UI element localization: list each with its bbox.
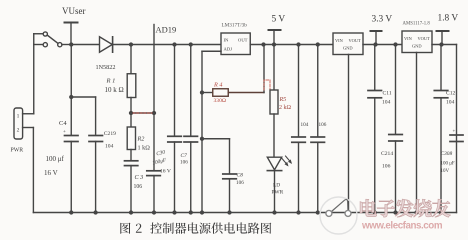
svg-text:C 3: C 3 (135, 174, 144, 181)
svg-text:2 kΩ: 2 kΩ (279, 105, 292, 111)
wire U3 GND down to rail (416, 53, 418, 213)
junction C30 top (172, 42, 176, 46)
junction node A (69, 42, 73, 46)
svg-text:VOUT: VOUT (349, 38, 362, 43)
svg-text:C12: C12 (446, 91, 456, 97)
svg-text:+: + (63, 130, 66, 135)
wire branch to C8 (202, 139, 230, 174)
wire connector pin 2 down to ground rail (32, 128, 34, 213)
svg-text:VOUT: VOUT (418, 36, 431, 41)
capacitor C30 (x=174.5) (168, 45, 182, 213)
regulator U2 3.3V box (333, 33, 363, 55)
wire VUser rail down to C4 (70, 45, 72, 135)
switch S1 bottom throw wire (34, 44, 43, 46)
wire switch to node A (62, 44, 71, 46)
svg-text:10 k Ω: 10 k Ω (105, 86, 124, 94)
red annotation hook R4 to R5 (264, 80, 270, 90)
LED arrows (282, 156, 292, 167)
wire U2 GND down to logo/rail (348, 55, 350, 211)
svg-text:LM317T/3b: LM317T/3b (222, 23, 248, 29)
wire U2 VOUT 3.3V rail (363, 44, 402, 46)
wire R1/R2 midpoint link to AD19 (131, 112, 154, 114)
svg-text:106: 106 (134, 184, 143, 190)
svg-text:1 kΩ: 1 kΩ (138, 145, 151, 152)
node VUser power bar (65, 23, 78, 45)
svg-text:VUser: VUser (62, 6, 86, 16)
regulator U3 AMS1117-1.8 box (402, 31, 432, 53)
wire left drop from switch to connector pin 1 (33, 45, 35, 114)
capacitor C4 100uF 16V (65, 136, 79, 213)
svg-text:C30: C30 (156, 149, 166, 157)
svg-text:C219: C219 (104, 131, 116, 137)
svg-text:16 V: 16 V (160, 169, 171, 175)
svg-text:C7: C7 (181, 153, 188, 159)
capacitor C7 (x=190.75) (184, 45, 198, 213)
capacitor C10 (x=317.75) (311, 45, 325, 213)
ground rail (33, 212, 456, 214)
svg-text:106: 106 (382, 164, 391, 170)
wire AD19 down to filter cap (153, 113, 155, 170)
svg-text:PWR: PWR (272, 190, 284, 196)
svg-text:100 μF: 100 μF (441, 162, 455, 167)
svg-text:1N5822: 1N5822 (96, 64, 116, 71)
diode D1 1N5822 (100, 37, 113, 52)
svg-text:C214: C214 (381, 151, 393, 157)
capacitor C31 on AD19 (147, 171, 161, 213)
svg-text:330Ω: 330Ω (214, 98, 227, 104)
svg-text:104: 104 (382, 100, 391, 106)
svg-text:www.elecfans.com: www.elecfans.com (361, 221, 443, 232)
capacitor C11 104 (368, 45, 382, 213)
svg-text:IN: IN (224, 38, 230, 43)
wire diode cathode to LM317 IN (top rail) (113, 44, 221, 46)
red annotation dashes on divider (131, 113, 152, 126)
wire U1 ADJ to adj node (202, 51, 221, 92)
svg-text:AD19: AD19 (156, 25, 177, 35)
svg-text:106: 106 (180, 160, 188, 166)
svg-text:2: 2 (17, 128, 20, 134)
LED LD PWR (267, 157, 281, 212)
svg-text:R2: R2 (137, 136, 145, 143)
resistor R2 1k (127, 113, 135, 160)
junction ADJ node (200, 90, 204, 94)
wire ADJ node down (201, 93, 203, 213)
junction C10 top (316, 42, 320, 46)
switch S1 contacts and blade (43, 32, 62, 47)
resistor R4 330 (202, 89, 264, 97)
svg-text:3.3 V: 3.3 V (372, 14, 393, 24)
svg-text:VIN: VIN (404, 36, 413, 41)
junction C9 top (296, 42, 300, 46)
svg-text:PWR: PWR (11, 148, 24, 154)
junction 3.3V stem (373, 42, 377, 46)
svg-text:+: + (453, 130, 456, 135)
node 1.8V power bar (437, 31, 449, 45)
svg-text:C308: C308 (441, 151, 453, 157)
svg-text:VIN: VIN (335, 38, 344, 43)
capacitor C12 104 (434, 45, 448, 213)
junction 1.8V stem (439, 42, 443, 46)
junction R4 rail (261, 42, 265, 46)
svg-text:LD: LD (273, 183, 280, 189)
node 5V power bar (269, 30, 281, 45)
resistor R1 10k (127, 45, 136, 114)
switch S1 top throw wire (34, 34, 43, 45)
junction dot R1 top on rail (129, 42, 133, 46)
watermark text elecfans (360, 199, 450, 231)
capacitor C9 (x=298.5) (292, 45, 306, 213)
svg-text:1.8 V: 1.8 V (438, 13, 459, 23)
junction midpoint left (129, 111, 133, 115)
junction C7 top (189, 42, 193, 46)
capacitor C214 106 (389, 45, 403, 213)
svg-text:106: 106 (236, 180, 244, 186)
wire LM317 OUT rail to reg VIN (250, 44, 333, 46)
svg-text:16 V: 16 V (44, 169, 58, 177)
svg-text:104: 104 (446, 100, 455, 106)
capacitor C30 rotated label group (150, 149, 168, 166)
node AD19 vertical net line (153, 25, 155, 114)
capacitor C219 (89, 136, 103, 213)
ground rail junction dots (69, 210, 443, 214)
svg-text:5 V: 5 V (272, 14, 286, 24)
wire branch node B to C219 top (71, 97, 95, 134)
svg-text:100 μf: 100 μf (46, 155, 65, 163)
capacitor C308 100uF 10V (450, 135, 463, 142)
svg-text:R5: R5 (279, 97, 287, 103)
wire U3 VOUT 1.8V (432, 45, 457, 213)
watermark logo circle (320, 197, 357, 234)
capacitor C8 106 (223, 174, 237, 213)
junction C214 top (393, 42, 397, 46)
svg-text:AMS1117-1.8: AMS1117-1.8 (403, 22, 431, 27)
capacitor C3 106 (125, 161, 138, 213)
svg-text:ADJ: ADJ (224, 47, 233, 52)
svg-text:1: 1 (17, 114, 20, 120)
svg-text:GND: GND (343, 46, 353, 51)
junction 5V stem (272, 42, 276, 46)
svg-text:GND: GND (412, 44, 422, 49)
svg-text:C4: C4 (59, 120, 67, 127)
svg-text:R 1: R 1 (106, 78, 116, 85)
svg-text:R 4: R 4 (213, 82, 222, 89)
junction C8 branch node (200, 137, 204, 141)
svg-text:104: 104 (301, 122, 309, 128)
junction midpoint right on AD19 (152, 111, 156, 115)
connector J1 PWR (14, 108, 34, 139)
node 3.3V power bar (371, 31, 382, 45)
resistor R5 2k (270, 45, 278, 157)
junction node B (C4/C219 branch) (69, 95, 73, 99)
svg-text:C8: C8 (237, 173, 244, 179)
svg-text:10V: 10V (441, 169, 450, 174)
svg-text:106: 106 (319, 122, 327, 128)
svg-text:104: 104 (105, 144, 114, 150)
svg-text:C11: C11 (383, 91, 392, 97)
regulator U1 LM317 box (221, 33, 250, 55)
caption figure title (120, 222, 271, 234)
svg-text:OUT: OUT (238, 38, 248, 43)
wire node A to diode anode (71, 44, 99, 46)
wire R4 up to OUT rail (263, 45, 265, 93)
